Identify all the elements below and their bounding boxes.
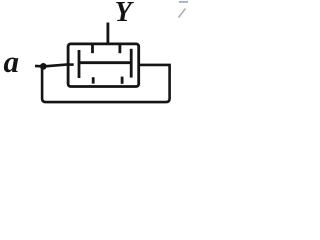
input wire a [35, 64, 68, 66]
inner electrode left bar [78, 50, 81, 78]
bottom gate stub right [121, 77, 124, 84]
inner electrode right bar [130, 49, 133, 78]
svg-text:a: a [4, 44, 20, 79]
stray cropped glyph top-right [179, 2, 189, 18]
gate lead wire Y [107, 23, 110, 44]
inner electrode crossbar [79, 61, 131, 64]
svg-text:Y: Y [115, 0, 135, 28]
bottom gate stub left [92, 77, 95, 83]
top gate stub right [119, 45, 122, 54]
top gate stub left [91, 45, 94, 54]
input stub inside box [68, 63, 74, 66]
junction dot [40, 63, 47, 70]
feedback loop wire [42, 65, 170, 102]
transmission gate U1 outer box [68, 44, 139, 87]
